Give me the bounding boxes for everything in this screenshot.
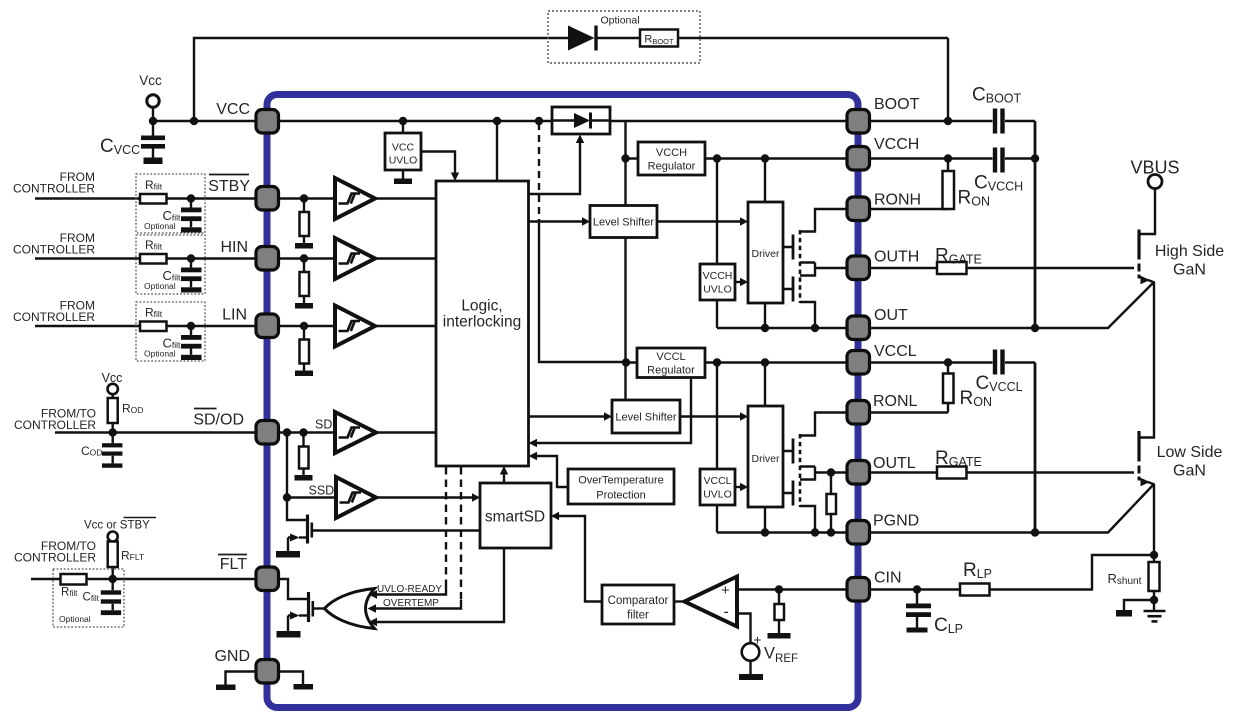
transistor FLT pulldown FET (277, 592, 313, 638)
svg-text:UVLO-READY: UVLO-READY (377, 584, 442, 595)
svg-text:smartSD: smartSD (485, 509, 545, 526)
arrow UVLO-READY into OR gate (369, 590, 378, 598)
resistor pulldown LIN (300, 340, 310, 364)
arrow smartSD to logic (up) (500, 466, 508, 475)
wire smartSD up to logic (503, 468, 505, 483)
node Vcc/CVCC junction (149, 117, 157, 125)
node VCC to bootstrap rail junction (190, 117, 198, 125)
wire STBY row (35, 199, 436, 244)
node LIN Cfilt junction (187, 322, 195, 330)
terminal Vcc (SD/OD) (108, 384, 118, 394)
svg-text:Protection: Protection (596, 490, 646, 502)
wire RONL row (869, 403, 948, 413)
svg-text:Vcc: Vcc (139, 73, 162, 88)
pin VCC (256, 110, 279, 134)
resistor RFLT (108, 542, 118, 568)
wire OUT row outside (869, 282, 1154, 328)
wire VCC to logic top (496, 121, 498, 181)
arrow VCC UVLO to logic (451, 173, 459, 182)
svg-text:Regulator: Regulator (648, 161, 696, 173)
node OUT / cap return junction (1031, 324, 1039, 332)
wire OR gate output to FLT FET gate (313, 607, 325, 609)
node VCCL rail / UVLO tap (713, 358, 721, 366)
svg-text:FLT: FLT (220, 556, 247, 573)
diode (optional bootstrap) (568, 26, 596, 51)
svg-text:VBUS: VBUS (1130, 158, 1179, 178)
capacitor CLP (906, 604, 931, 633)
wire HIN row (35, 259, 436, 304)
wire GND pin grounds (226, 672, 304, 686)
wire VBUS to high GaN drain (1139, 189, 1155, 235)
node OUTL pulldown tap (827, 468, 835, 476)
svg-text:SD/OD: SD/OD (193, 412, 244, 429)
node HIN pulldown junction (300, 254, 308, 262)
output stage FETs high (793, 230, 800, 303)
svg-text:VCC: VCC (216, 101, 250, 118)
resistor pulldown HIN (300, 272, 310, 296)
node SSD junction (283, 493, 291, 501)
node VCCH rail / driver tap (761, 154, 769, 162)
svg-text:BOOT: BOOT (874, 96, 920, 113)
wire level shifter high to driver (657, 220, 740, 222)
resistor pulldown SD (299, 447, 309, 469)
resistor RON low (943, 374, 954, 404)
svg-text:OUT: OUT (874, 307, 908, 324)
pin VCCL (847, 351, 870, 375)
wire VCCL row outside (869, 363, 1035, 374)
svg-text:VCC: VCC (392, 142, 415, 154)
box Driver (high) (748, 202, 783, 303)
wire VCCL UVLO down to PGND rail (716, 505, 718, 533)
dotted box filter HIN (136, 235, 205, 294)
node VCCH regulator input junction (621, 154, 629, 162)
pin OUTH (847, 256, 870, 280)
capacitor CBOOT (995, 109, 1003, 134)
pin FLT (256, 567, 279, 591)
svg-text:Regulator: Regulator (647, 365, 695, 377)
wire SSD row (287, 433, 472, 521)
svg-text:Level Shifter: Level Shifter (593, 217, 654, 229)
arrow VCCH UVLO to driver (740, 278, 748, 286)
wire shunt grounds (1124, 600, 1154, 611)
node HIN Cfilt junction (187, 254, 195, 262)
node CVCCH return junction (1031, 154, 1039, 162)
svg-text:CONTROLLER: CONTROLLER (13, 182, 95, 196)
svg-text:CONTROLLER: CONTROLLER (14, 418, 96, 432)
wire OUT rail inside (717, 327, 846, 329)
svg-text:Driver: Driver (752, 248, 781, 260)
svg-text:OUTL: OUTL (873, 455, 916, 472)
dotted box filter STBY (136, 174, 205, 233)
svg-text:GaN: GaN (1173, 262, 1206, 279)
wire logic to level shifter low (529, 415, 605, 417)
resistor RON high (943, 171, 955, 209)
wire vcc to top rail (194, 38, 948, 121)
svg-text:CONTROLLER: CONTROLLER (13, 310, 95, 324)
svg-text:OUTH: OUTH (874, 249, 919, 266)
svg-text:VCCL: VCCL (656, 351, 685, 363)
box VCCH UVLO (700, 264, 735, 300)
terminal Vcc or STBY (FLT) (108, 532, 118, 542)
wire smartSD to SSD FET gate (313, 529, 480, 531)
node OUT rail / FET source junction (811, 324, 819, 332)
comparator (685, 577, 738, 627)
transistor Low Side GaN (1139, 431, 1155, 486)
pin RONL (847, 401, 870, 425)
node PGND rail / FET source junction (811, 528, 819, 536)
schmitt trigger STBY (335, 178, 375, 219)
node VCCH rail / UVLO tap (713, 154, 721, 162)
ground bars GND pin (216, 685, 236, 691)
wire OTP to logic (537, 456, 568, 487)
arrowheads (368, 135, 749, 627)
node VCC UVLO tap (399, 117, 407, 125)
wire VCCH row outside (869, 159, 1035, 172)
svg-text:Optional: Optional (600, 15, 639, 27)
box OverTemperature Protection (568, 469, 674, 504)
capacitor Cfilt FLT (101, 590, 121, 615)
wire OVERTEMP (460, 467, 462, 600)
terminal VBUS (1148, 175, 1162, 189)
wire Vcc stub to VCC rail (153, 108, 278, 122)
capacitor Cfilt LIN (181, 335, 202, 360)
resistor Rfilt STBY (140, 194, 167, 204)
svg-text:Cfilt: Cfilt (83, 592, 100, 604)
pin VCCH (847, 147, 870, 171)
resistor RLP (960, 584, 990, 596)
arrow into level shifter high (582, 217, 590, 225)
arrow to bootstrap diode (576, 135, 584, 144)
wire VCC UVLO to logic (421, 152, 455, 174)
node VCCL rail / driver tap (761, 358, 769, 366)
svg-text:RONH: RONH (874, 192, 921, 209)
arrow VCCL-ready into logic (529, 439, 538, 447)
box VCC UVLO (385, 133, 421, 170)
wire comparator plus input (737, 590, 846, 634)
wire VCCH UVLO to driver (735, 281, 740, 283)
svg-text:VCCH: VCCH (656, 147, 687, 159)
resistor RGATE high (937, 262, 967, 274)
svg-text:LIN: LIN (222, 307, 247, 324)
wire VCCL regulator output rail (705, 363, 846, 470)
box VCCH Regulator (638, 142, 705, 175)
arrow SSD into smartSD (472, 493, 480, 501)
wire comparator output to filter (674, 600, 685, 602)
wire VCCH regulator output rail (705, 159, 846, 265)
svg-text:VCCH: VCCH (703, 270, 733, 282)
node comparator input junction (775, 585, 783, 593)
pin BOOT (847, 110, 870, 134)
arrow OVERTEMP into OR gate (368, 604, 377, 612)
arrow smartSD into OR gate (369, 618, 378, 626)
wire VCC branch to VCCH regulator and level shifter (626, 121, 639, 206)
svg-text:OVERTEMP: OVERTEMP (383, 598, 439, 609)
schmitt trigger LIN (335, 306, 375, 347)
svg-text:UVLO: UVLO (389, 155, 418, 167)
wire VCCL-ready to logic (537, 378, 691, 444)
svg-text:Rfilt: Rfilt (61, 587, 78, 599)
IC package boundary (blue) (267, 95, 858, 708)
capacitor Cfilt HIN (181, 268, 202, 293)
svg-text:filter: filter (627, 610, 649, 622)
node VCC to logic tap (493, 117, 501, 125)
box Level Shifter (low) (612, 400, 680, 433)
node BOOT / bootstrap junction (944, 117, 952, 125)
svg-text:Vcc: Vcc (102, 371, 123, 385)
pin OUTL (847, 461, 870, 485)
capacitor COD (102, 443, 122, 468)
transistor smartSD pulldown FET (276, 515, 312, 558)
wire CIN row outside (869, 555, 1154, 628)
svg-text:OverTemperature: OverTemperature (578, 475, 664, 487)
svg-text:STBY: STBY (208, 178, 250, 195)
pin PGND (847, 521, 870, 545)
svg-text:Driver: Driver (752, 453, 781, 465)
wire RONH row (869, 208, 948, 210)
dotted box filter LIN (136, 302, 205, 361)
svg-text:HIN: HIN (220, 239, 248, 256)
svg-text:Comparator: Comparator (608, 595, 669, 607)
pin RONH (847, 197, 870, 221)
resistor RGATE low (937, 467, 967, 479)
wire level shifter low to driver (680, 415, 740, 417)
svg-text:High Side: High Side (1155, 243, 1224, 260)
wire high GaN source down to low GaN drain (1139, 282, 1154, 438)
svg-text:Level Shifter: Level Shifter (615, 412, 676, 424)
wire logic to level shifter high (529, 220, 583, 222)
wire OUTL pulldown resistor (830, 473, 832, 533)
wire output stage low (783, 413, 846, 533)
svg-text:SD: SD (315, 418, 332, 432)
svg-text:Optional: Optional (144, 221, 176, 231)
wire PGND row outside (869, 484, 1154, 533)
svg-text:RONL: RONL (873, 393, 918, 410)
box Level Shifter (high) (590, 206, 657, 238)
node PGND / cap return junction (1031, 528, 1039, 536)
svg-text:Logic,: Logic, (461, 298, 502, 315)
svg-text:Vcc or STBY: Vcc or STBY (84, 520, 150, 532)
wire SSD FET source to gnd (288, 538, 291, 552)
pin STBY (256, 187, 279, 211)
wire VCCH UVLO down to OUT rail (716, 300, 718, 328)
transistor High Side GaN (1139, 230, 1155, 285)
node CIN / CLP junction (913, 585, 921, 593)
wire PGND rail inside (717, 531, 846, 533)
wire logic to bootstrap diode arrow (529, 142, 581, 194)
resistor ROD (108, 398, 118, 423)
svg-text:GaN: GaN (1173, 463, 1206, 480)
node PGND rail / driver junction (761, 528, 769, 536)
node OUT rail / driver junction (761, 324, 769, 332)
box Comparator filter (602, 585, 674, 624)
wire VCCL UVLO to driver (735, 486, 740, 488)
pin SD/OD (256, 421, 279, 445)
box VCCL UVLO (700, 469, 735, 505)
node SD pulldown junction (299, 428, 307, 436)
optional dashed box (bootstrap) (548, 11, 700, 63)
resistor Rshunt (1149, 562, 1160, 591)
wire OUTL row (869, 471, 1134, 473)
svg-text:VCCL: VCCL (703, 475, 731, 487)
node PGND rail / pulldown junction (827, 528, 835, 536)
arrow into level shifter low (604, 412, 612, 420)
svg-text:PGND: PGND (873, 513, 919, 530)
arrow comparator filter into smartSD (551, 512, 559, 520)
wire driver high bottom (764, 303, 766, 328)
svg-text:SSD: SSD (309, 484, 335, 498)
svg-text:UVLO: UVLO (703, 489, 732, 501)
resistor Rfilt LIN (140, 322, 167, 332)
node shunt bottom junction (1150, 596, 1158, 604)
node STBY Cfilt junction (187, 194, 195, 202)
svg-text:VCCL: VCCL (874, 343, 917, 360)
arrow VCCL UVLO to driver (740, 483, 748, 491)
svg-text:Optional: Optional (59, 614, 91, 624)
pin GND (256, 660, 279, 684)
node VCCL / RON junction (944, 358, 952, 366)
output stage FETs low (793, 434, 800, 507)
arrow OTP into logic (529, 452, 538, 460)
box Logic, interlocking (436, 181, 529, 466)
pin LIN (256, 314, 279, 338)
capacitor CVCCH (995, 148, 1003, 173)
dotted box filter FLT (53, 569, 124, 627)
pin CIN (847, 578, 870, 602)
pin OUT (847, 316, 870, 340)
wire OUTH row (869, 267, 1134, 269)
wire filter to smartSD (559, 516, 602, 602)
wire SD/OD row (55, 394, 436, 475)
wire UVLO-READY (445, 467, 447, 586)
node FLT RFLT junction (109, 575, 117, 583)
resistor RBOOT (640, 30, 678, 47)
wire FLT row (31, 567, 278, 610)
resistor CIN pulldown (775, 604, 785, 620)
svg-text:CONTROLLER: CONTROLLER (14, 551, 96, 565)
OR gate (325, 589, 375, 629)
node LIN pulldown junction (300, 322, 308, 330)
svg-text:CONTROLLER: CONTROLLER (13, 243, 95, 257)
wire VCC rail inside IC (278, 120, 846, 122)
wire VCC UVLO drop (402, 121, 404, 179)
capacitor Cfilt STBY (181, 208, 202, 233)
resistor Rfilt HIN (140, 254, 167, 264)
node VCCH / RON junction (944, 154, 952, 162)
schmitt trigger SD (335, 412, 376, 453)
wire VCC branch to VCCL regulator (dashed top) (539, 220, 626, 362)
wire FLT FET source to gnd (288, 616, 291, 632)
svg-text:Optional: Optional (144, 349, 176, 359)
svg-text:+: + (721, 582, 730, 599)
svg-text:UVLO: UVLO (703, 284, 732, 296)
svg-text:Low Side: Low Side (1157, 444, 1223, 461)
capacitor CVCCL (995, 350, 1003, 375)
node SD/OD inner junction (283, 428, 291, 436)
wire smartSD to OR gate (376, 548, 504, 622)
node STBY pulldown junction (300, 194, 308, 202)
box internal bootstrap diode (552, 107, 610, 134)
svg-text:interlocking: interlocking (443, 314, 521, 331)
box Driver (low) (748, 406, 783, 507)
capacitor C_VCC (141, 121, 165, 164)
schmitt trigger HIN (335, 238, 375, 279)
wire driver low bottom (764, 507, 766, 533)
schmitt trigger SSD (336, 477, 376, 518)
wire output stage high (783, 209, 846, 328)
node shunt top junction (1150, 551, 1158, 559)
ground bar (shunt left) (1116, 610, 1132, 617)
node VCCL regulator input junction (622, 358, 630, 366)
resistor pulldown STBY (300, 212, 310, 236)
wire comparator minus to VREF (737, 614, 751, 675)
wire LIN row (35, 326, 436, 371)
wire FLT FET drain (278, 579, 309, 599)
svg-text:GND: GND (214, 648, 250, 665)
resistor OUTL pulldown (827, 494, 837, 514)
earth ground (shunt) (1144, 611, 1166, 621)
svg-text:CIN: CIN (874, 570, 902, 587)
node VCC to VCCL regulator tap (535, 117, 543, 125)
box smartSD (480, 483, 551, 548)
pins (256, 110, 870, 684)
terminal Vcc (top-left) (147, 95, 159, 107)
pin HIN (256, 247, 279, 271)
wire BOOT row outside (869, 120, 1035, 122)
box VCCL Regulator (637, 348, 705, 378)
svg-text:VCCH: VCCH (874, 136, 919, 153)
node SD/OD COD junction (109, 428, 117, 436)
resistor Rfilt FLT (61, 574, 87, 585)
arrow level shifter low to driver (740, 412, 748, 420)
svg-text:+: + (754, 633, 762, 648)
source VREF (739, 633, 763, 681)
arrow level shifter high to driver (740, 217, 748, 225)
svg-text:-: - (724, 604, 729, 621)
wire low GaN source down to shunt (1153, 484, 1155, 600)
svg-text:Optional: Optional (144, 281, 176, 291)
